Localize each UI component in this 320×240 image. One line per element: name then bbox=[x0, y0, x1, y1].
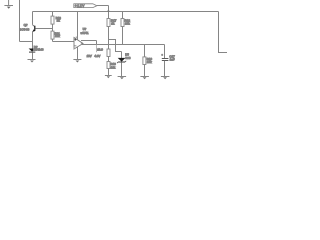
wire +12V rail bbox=[33, 11, 219, 13]
wire op-amp feedback stub bbox=[81, 40, 97, 42]
capacitor C17 bbox=[161, 45, 168, 77]
resistor R12 bbox=[121, 12, 124, 45]
svg-text:15V: 15V bbox=[87, 54, 92, 58]
power flag +12V bbox=[74, 4, 109, 19]
ground under zener bbox=[118, 77, 127, 80]
transistor Q? bbox=[33, 12, 53, 32]
wire probe bbox=[96, 45, 98, 53]
resistor R15 bbox=[107, 49, 110, 62]
svg-text:10k: 10k bbox=[125, 22, 130, 26]
svg-text:16.9: 16.9 bbox=[97, 47, 103, 51]
ground under C17 bbox=[161, 77, 170, 80]
svg-text:1nF: 1nF bbox=[170, 57, 175, 61]
svg-text:+12V: +12V bbox=[75, 4, 85, 8]
wire output bus bbox=[82, 44, 165, 46]
svg-text:uA741: uA741 bbox=[81, 31, 89, 35]
wire feedback drop bbox=[96, 41, 98, 45]
op-amp pin marks bbox=[76, 37, 77, 38]
wire jog from R17 to zener bbox=[109, 40, 122, 52]
resistor R21 bbox=[51, 29, 54, 42]
svg-text:1k: 1k bbox=[111, 22, 115, 26]
resistor R18 bbox=[107, 62, 110, 76]
ground under diode bbox=[28, 60, 36, 63]
resistor R13 bbox=[51, 12, 54, 29]
wire emitter down to diode bbox=[32, 32, 34, 49]
wire right edge drop bbox=[219, 12, 228, 53]
wire long vertical bbox=[19, 0, 21, 42]
wire divider to op-amp input bbox=[53, 41, 75, 43]
diode D? bbox=[29, 49, 36, 60]
ground under op-amp bbox=[73, 60, 81, 63]
svg-text:BC546: BC546 bbox=[19, 27, 29, 31]
svg-text:10k: 10k bbox=[111, 65, 116, 69]
zener diode D5 bbox=[117, 52, 126, 77]
svg-text:5V6: 5V6 bbox=[125, 56, 131, 60]
ground under R16 bbox=[140, 77, 149, 80]
svg-text:4.8V: 4.8V bbox=[94, 54, 100, 58]
wire jog to emitter bbox=[20, 41, 33, 43]
svg-text:10k: 10k bbox=[147, 60, 152, 64]
svg-text:1N4148: 1N4148 bbox=[33, 48, 44, 52]
junction bbox=[108, 10, 110, 12]
op-amp U? bbox=[74, 12, 83, 60]
svg-text:12k: 12k bbox=[55, 34, 60, 38]
ground top-left bbox=[4, 0, 13, 9]
resistor R17 bbox=[107, 19, 110, 50]
resistor R16 bbox=[143, 45, 146, 77]
ground under R18 bbox=[105, 76, 112, 79]
svg-text:1k: 1k bbox=[57, 19, 61, 23]
